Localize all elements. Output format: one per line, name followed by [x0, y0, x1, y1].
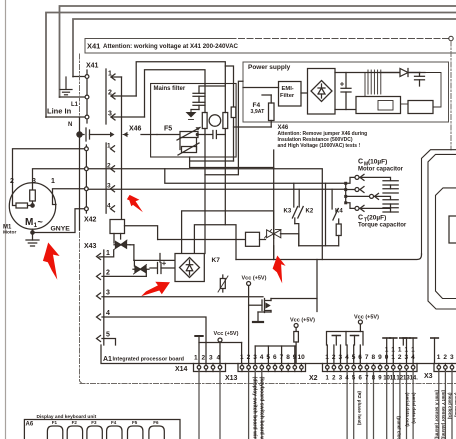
svg-text:1: 1: [391, 354, 395, 361]
bus X13: [255, 346, 295, 364]
svg-text:(keyboard switch board wires): (keyboard switch board wires): [259, 377, 265, 439]
svg-text:1: 1: [398, 347, 402, 354]
svg-text:and High Voltage (1000VAC) tes: and High Voltage (1000VAC) tests !: [278, 143, 361, 149]
wire filter vertical right: [224, 84, 226, 113]
wire opto feed: [158, 239, 246, 241]
wire ps to emi: [243, 87, 279, 89]
svg-text:2: 2: [443, 354, 447, 361]
svg-text:X41: X41: [86, 63, 99, 70]
connector X42 socket body: [85, 145, 87, 213]
rail T pin13: [403, 338, 410, 364]
svg-text:1: 1: [107, 143, 111, 150]
pin X42-4 socket: [85, 207, 89, 211]
pin X42-4 plug arrow: [111, 206, 115, 212]
pin X41-L1 socket: [85, 95, 89, 99]
svg-text:(20µF): (20µF): [367, 215, 386, 222]
svg-text:2: 2: [106, 270, 110, 277]
wire filter out lower: [190, 160, 234, 162]
svg-text:3: 3: [339, 354, 343, 361]
note box X41 attention: [85, 39, 456, 54]
wire link X14 to X13: [199, 342, 242, 344]
wire jog to relays: [165, 169, 346, 184]
pin cap 1: [346, 174, 391, 183]
ground MOSFET: [253, 312, 263, 322]
MOSFET Q1: [249, 260, 317, 313]
label X2 pin numbers bottom: [326, 376, 419, 382]
svg-text:1: 1: [325, 354, 329, 361]
pin cap 2: [346, 187, 364, 193]
wire rail drop: [235, 240, 237, 260]
svg-text:3: 3: [106, 290, 110, 297]
pin X41-2 plug: [111, 93, 136, 99]
svg-text:Motor: Motor: [3, 230, 16, 236]
wire PS feed left: [225, 66, 233, 161]
svg-text:(limit X sensor (alarm)): (limit X sensor (alarm)): [435, 390, 440, 439]
varistor K7 gate: [218, 275, 228, 292]
svg-text:X13: X13: [225, 375, 238, 382]
A1 board edge: [101, 345, 456, 364]
svg-text:7: 7: [280, 354, 284, 361]
resistor motor winding horizontal: [16, 203, 28, 208]
wire drop mid: [273, 246, 275, 260]
svg-text:F3: F3: [91, 420, 97, 425]
svg-text:K3: K3: [284, 209, 292, 215]
capacitor X across line: [205, 131, 225, 139]
button F5: [128, 426, 143, 439]
svg-text:N: N: [68, 122, 72, 128]
capacitor filter Cy upper: [191, 86, 225, 110]
connector X14 pins: [197, 364, 222, 372]
svg-text:2: 2: [247, 354, 251, 361]
svg-text:2: 2: [332, 354, 336, 361]
svg-text:(display switch board wires A): (display switch board wires A): [252, 377, 258, 439]
svg-text:3: 3: [450, 354, 454, 361]
svg-text:3: 3: [108, 111, 112, 118]
connector X14 shell: [194, 364, 226, 372]
ground filter: [186, 110, 197, 120]
svg-text:(10µF): (10µF): [368, 159, 387, 166]
svg-text:K7: K7: [212, 257, 221, 264]
Vcc supply 2: [294, 324, 299, 364]
svg-text:10: 10: [298, 354, 306, 361]
svg-text:X41: X41: [87, 42, 100, 51]
wire k7 feed upper: [182, 211, 274, 254]
wire X42-2 to caps: [88, 169, 322, 260]
svg-text:1: 1: [437, 354, 441, 361]
connector X2 pins: [326, 364, 415, 372]
svg-text:F4: F4: [111, 420, 117, 425]
svg-text:Power supply: Power supply: [248, 64, 291, 71]
svg-text:F5: F5: [164, 126, 172, 133]
box bridge rectifier: [308, 69, 336, 115]
button F2: [67, 426, 82, 439]
box at right edge: [449, 216, 456, 243]
svg-text:4: 4: [345, 354, 349, 361]
button F6: [149, 426, 164, 439]
svg-text:1: 1: [106, 250, 110, 257]
svg-text:3: 3: [253, 354, 257, 361]
svg-text:4: 4: [107, 203, 111, 210]
svg-text:2: 2: [107, 163, 111, 170]
svg-text:2: 2: [202, 355, 206, 362]
connector X3 shell: [434, 364, 456, 372]
opto box triac driver: [246, 232, 260, 246]
box regulator inner: [378, 101, 393, 111]
capacitor C 20uF torque: [383, 200, 398, 212]
svg-text:C: C: [358, 215, 363, 222]
label X3 pin numbers: [437, 354, 454, 361]
button F3: [87, 426, 102, 439]
svg-text:1: 1: [385, 347, 389, 354]
wire k7 feed: [134, 259, 176, 261]
svg-text:X3: X3: [424, 373, 433, 380]
svg-text:1: 1: [51, 178, 55, 185]
pin cap 3: [346, 203, 391, 212]
node on dashed line top right: [449, 36, 453, 40]
wire top frame line 3: [73, 19, 456, 77]
pin X41-1 plug: [111, 74, 122, 80]
motor M1 body: [9, 183, 55, 229]
svg-text:2: 2: [398, 354, 402, 361]
triac T2 optocoupler: [133, 260, 149, 276]
svg-text:F2: F2: [72, 420, 78, 425]
svg-text:EMI-: EMI-: [282, 86, 294, 92]
svg-text:A6: A6: [26, 422, 34, 428]
svg-text:4: 4: [260, 354, 264, 361]
connector X3 pins: [437, 364, 454, 372]
wire PS down 1: [234, 126, 272, 128]
capacitor C 10uF motor: [383, 181, 398, 193]
wire bridge top rail: [335, 72, 420, 74]
svg-text:L1: L1: [71, 102, 79, 108]
bridge diamond: [311, 81, 332, 102]
capacitor electrolytic K7: [150, 254, 176, 274]
button F4: [107, 426, 122, 439]
svg-text:8: 8: [372, 354, 376, 361]
transformer T1 windings: [365, 70, 381, 110]
svg-text:3: 3: [32, 178, 36, 185]
box mains filter: [151, 84, 237, 158]
svg-text:1: 1: [411, 347, 415, 354]
rail T pin11: [390, 338, 397, 364]
svg-text:7: 7: [365, 354, 369, 361]
box shield X2 left: [327, 332, 364, 364]
Vcc supply 1: [247, 282, 251, 364]
K7 diamond: [180, 258, 200, 278]
wires below connectors: [199, 372, 452, 439]
svg-text:5: 5: [266, 354, 270, 361]
rotated signal labels: [252, 377, 456, 439]
jumper X46: [80, 128, 158, 141]
capacitors motor feed: [344, 182, 347, 205]
wire L1 up over filter: [136, 62, 225, 96]
wire ps internals: [401, 103, 409, 105]
box X42 pe filter: [110, 220, 125, 234]
box power supply: [243, 62, 449, 122]
wire motor terminal 3: [33, 169, 85, 190]
svg-text:(serial data in): (serial data in): [412, 393, 417, 425]
inductor choke left: [202, 113, 207, 129]
capacitor electrolytic smoothing: [341, 73, 352, 110]
wire N up over filter: [145, 70, 206, 117]
wire PS down 3: [273, 150, 275, 260]
wire X43-2: [102, 275, 146, 277]
svg-text:9: 9: [293, 354, 297, 361]
svg-text:(limit Y sensor (alarm)): (limit Y sensor (alarm)): [441, 390, 446, 439]
wire pe box link: [125, 226, 158, 240]
svg-text:C: C: [358, 159, 363, 166]
svg-text:(serial data out): (serial data out): [405, 393, 410, 428]
annotation red arrow at rail: [273, 256, 286, 284]
svg-text:GNYE: GNYE: [51, 226, 71, 233]
relay contact K2: [295, 189, 303, 246]
scan page edge: [5, 0, 7, 439]
svg-text:0: 0: [385, 354, 389, 361]
rail T 5: [400, 338, 407, 345]
junction node N at boundary: [77, 132, 82, 137]
rail T 6: [431, 338, 439, 364]
connector X42 plug body: [105, 143, 107, 213]
svg-text:1: 1: [391, 347, 395, 354]
svg-text:Filter: Filter: [280, 93, 295, 99]
svg-text:(head clock): (head clock): [448, 393, 453, 420]
box keyboard unit: [24, 420, 180, 439]
svg-text:5: 5: [106, 332, 110, 339]
connector X41 socket body: [86, 70, 88, 123]
triac main: [260, 229, 299, 239]
wire X43-4: [102, 317, 206, 343]
svg-text:~: ~: [38, 217, 43, 227]
pin X42-3 plug arrow: [111, 186, 115, 192]
wire filter vertical left: [204, 84, 206, 113]
wire PE to X41 pin: [73, 76, 85, 78]
svg-text:(panel clock): (panel clock): [397, 416, 402, 439]
svg-text:3,9AT: 3,9AT: [251, 109, 266, 115]
wire k7 feed lower: [194, 225, 236, 254]
box regulator 1: [356, 97, 401, 114]
svg-text:6: 6: [273, 354, 277, 361]
relay contact K3: [292, 183, 297, 223]
svg-text:(R2 phase heat): (R2 phase heat): [357, 391, 362, 426]
board boundary dashed bottom: [80, 383, 456, 385]
connector X13 pins: [240, 364, 303, 372]
wire main bottom rail: [236, 254, 422, 260]
connector X13 shell: [238, 364, 306, 372]
svg-text:3: 3: [405, 354, 409, 361]
board boundary dash-dot A1: [80, 54, 83, 384]
rail T ground X14: [195, 336, 202, 364]
box EMI filter: [279, 82, 302, 107]
junction motor star point: [31, 204, 34, 207]
wire filter N down: [204, 157, 206, 254]
annotation red arrow at X41 pins: [127, 195, 143, 212]
svg-text:14.: 14.: [410, 376, 419, 382]
component on feed: [231, 107, 236, 118]
svg-text:9: 9: [378, 354, 382, 361]
connector X2 shell: [323, 364, 418, 372]
svg-text:6: 6: [358, 354, 362, 361]
wire X43-3: [102, 296, 263, 298]
svg-text:1: 1: [240, 354, 244, 361]
pin X41-3 plug: [111, 114, 145, 120]
unit chassis outline C: [436, 188, 456, 299]
svg-text:Vcc (+5V): Vcc (+5V): [354, 315, 379, 321]
pin X42-3 socket: [85, 187, 89, 191]
svg-text:5: 5: [352, 354, 356, 361]
fuse F5: [157, 127, 205, 140]
svg-text:Vcc (+5V): Vcc (+5V): [290, 318, 315, 324]
pin X42-1 plug arrow: [111, 146, 115, 152]
varistor F5b: [178, 138, 199, 156]
wire bridge bottom rail: [335, 109, 365, 111]
unit chassis outline A: [422, 150, 456, 254]
wire L1 to X41 pin: [60, 96, 86, 98]
wire X42-3 to caps: [88, 188, 346, 190]
wire N to X41 pin: [46, 116, 85, 118]
label X2 pin numbers: [325, 347, 415, 362]
svg-text:Integrated processor board: Integrated processor board: [113, 357, 185, 363]
wire top frame line 2: [46, 13, 456, 118]
svg-text:2: 2: [108, 90, 112, 97]
button F1: [47, 426, 62, 439]
ground PE symbol at line input: [60, 77, 72, 95]
svg-text:Torque capacitor: Torque capacitor: [358, 223, 407, 229]
wire motor GNYE: [33, 209, 85, 233]
pin X42-2 socket: [85, 167, 89, 171]
relay contact K4: [326, 183, 342, 246]
svg-text:X14: X14: [175, 366, 188, 373]
svg-text:X2: X2: [309, 375, 318, 382]
annotation red arrow at K7: [141, 282, 170, 297]
fuse F4: [262, 95, 274, 127]
core toroid: [209, 115, 221, 127]
svg-text:4: 4: [217, 355, 221, 362]
wire top frame line 1: [60, 6, 456, 97]
svg-text:K2: K2: [306, 209, 314, 215]
unit chassis outline B: [428, 154, 456, 309]
svg-text:Attention: working voltage at: Attention: working voltage at X41 200-24…: [103, 43, 239, 50]
wire filter output long: [190, 157, 274, 168]
wire return line: [299, 245, 339, 247]
svg-text:1: 1: [194, 355, 198, 362]
svg-text:2: 2: [10, 178, 14, 185]
svg-text:A1: A1: [103, 356, 112, 363]
svg-text:X43: X43: [84, 243, 97, 250]
label X13 pin numbers: [240, 354, 305, 361]
wire motor terminal 1: [53, 189, 85, 205]
inductor choke right: [223, 113, 228, 129]
wire triac k3 net: [298, 234, 300, 246]
connector X43 plug pins: [97, 250, 104, 345]
annotation red arrow at motor: [43, 243, 60, 280]
rail T pin14: [410, 338, 417, 364]
box regulator 2: [408, 101, 433, 114]
svg-text:Line In: Line In: [47, 107, 72, 116]
wire motor terminal 2: [13, 149, 85, 206]
board boundary right dash-dot: [450, 41, 452, 150]
svg-text:F4: F4: [253, 102, 261, 109]
svg-text:4: 4: [411, 354, 415, 361]
wire EMI to bridge: [301, 92, 308, 94]
svg-text:Vcc (+5V): Vcc (+5V): [214, 331, 239, 337]
svg-text:1: 1: [108, 71, 112, 78]
pin X42-2 plug arrow: [111, 166, 115, 172]
svg-text:3: 3: [209, 355, 213, 362]
pin X41-PE socket: [85, 75, 89, 79]
svg-text:K4: K4: [335, 209, 343, 215]
diode D1 output: [380, 69, 425, 77]
wire PS down 2: [205, 81, 243, 175]
svg-text:1: 1: [405, 347, 409, 354]
Vcc supply 4: [358, 320, 362, 332]
wire PE down from X41-1: [121, 77, 123, 220]
svg-text:4: 4: [106, 310, 110, 317]
svg-text:3: 3: [107, 183, 111, 190]
svg-text:F5: F5: [132, 420, 138, 425]
svg-text:8: 8: [286, 354, 290, 361]
svg-text:F1: F1: [52, 420, 58, 425]
box K7 rectifier: [175, 254, 204, 282]
svg-text:Display and keyboard unit: Display and keyboard unit: [37, 414, 97, 420]
wire X43-1: [102, 250, 114, 257]
svg-text:M: M: [25, 217, 33, 228]
wire filter L down: [224, 157, 226, 225]
svg-text:F6: F6: [153, 420, 159, 425]
capacitor output: [415, 73, 425, 87]
Vcc supply 3: [218, 338, 222, 364]
svg-text:X42: X42: [84, 217, 97, 224]
svg-text:Vcc (+5V): Vcc (+5V): [242, 276, 267, 282]
svg-text:X46: X46: [129, 126, 142, 133]
label X14 pin numbers: [194, 355, 221, 362]
triac T1 optocoupler: [114, 234, 134, 261]
resistor motor winding vertical: [30, 190, 36, 201]
pin X41-N socket: [85, 115, 89, 119]
wire X43-5: [102, 339, 116, 346]
rail T 4: [383, 338, 391, 364]
svg-text:Motor capacitor: Motor capacitor: [358, 167, 404, 173]
connector X41 plug body: [105, 69, 107, 124]
pin X42-1 socket: [85, 147, 89, 151]
ground motor: [26, 229, 39, 246]
svg-text:Mains filter: Mains filter: [154, 86, 186, 92]
pin cap mid: [346, 193, 391, 199]
